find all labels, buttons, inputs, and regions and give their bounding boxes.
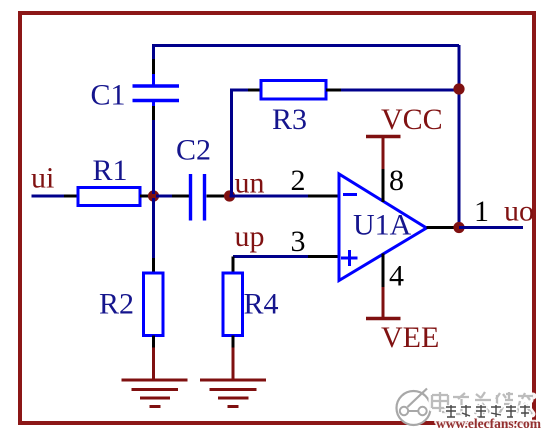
wire node A to C2	[156, 195, 172, 198]
wire R2 to ground	[152, 348, 155, 380]
svg-text:uo: uo	[504, 195, 534, 228]
svg-text:4: 4	[389, 260, 404, 293]
svg-text:8: 8	[389, 164, 404, 197]
pin C2 left	[172, 195, 189, 198]
wire R4 to ground	[232, 348, 235, 380]
svg-text:VEE: VEE	[381, 321, 439, 354]
capacitor C1	[133, 74, 180, 106]
resistor R3	[261, 81, 326, 100]
pin C1 top	[152, 59, 155, 74]
svg-text:up: up	[235, 220, 265, 253]
pin 3 lead	[308, 255, 340, 258]
watermark red url text	[436, 416, 542, 431]
pin R1 right	[140, 195, 150, 198]
node uo junction dot	[453, 222, 464, 233]
watermark logo circle	[397, 389, 431, 426]
pin 4 lead	[382, 254, 385, 288]
svg-text:C1: C1	[91, 79, 126, 112]
svg-text:C2: C2	[176, 134, 211, 167]
pin 1 output lead	[427, 226, 455, 229]
ground below R4	[200, 380, 266, 407]
svg-text:R1: R1	[93, 154, 128, 187]
wire ui input	[32, 195, 65, 198]
svg-text:www.elecfans.com: www.elecfans.com	[436, 416, 542, 431]
wire up to pin 3	[233, 255, 308, 258]
svg-text:R2: R2	[99, 288, 134, 321]
pin R2 bottom	[152, 336, 155, 348]
svg-text:3: 3	[291, 225, 306, 258]
pin R3 right	[326, 89, 341, 92]
pin C1 bottom	[152, 106, 155, 120]
resistor R1	[78, 188, 140, 206]
svg-text:ui: ui	[31, 162, 54, 195]
node B junction dot	[453, 83, 464, 94]
svg-text:U1A: U1A	[353, 209, 412, 242]
resistor R2	[144, 273, 164, 336]
wire un to pin 2	[230, 195, 309, 198]
svg-text:2: 2	[291, 164, 306, 197]
svg-text:1: 1	[474, 195, 489, 228]
wire C1 top to feedback top rail	[154, 46, 460, 60]
op-amp minus sign	[343, 193, 357, 196]
wire node A up to C1	[152, 120, 155, 194]
VCC power bar	[366, 137, 401, 170]
wire node A down to R2	[152, 198, 155, 258]
pin R3 left	[248, 89, 261, 92]
resistor R4	[223, 273, 243, 336]
pin 8 lead	[382, 169, 385, 202]
watermark dark small glyphs	[446, 405, 530, 417]
wire un up to R3	[232, 90, 249, 196]
op-amp plus sign	[341, 250, 358, 266]
pin R4 bottom	[232, 336, 235, 348]
svg-text:R3: R3	[272, 103, 307, 136]
wire up corner down to R4	[232, 257, 235, 274]
node A junction dot	[148, 190, 159, 201]
VEE power bar	[366, 287, 401, 319]
wire feedback right vertical	[458, 45, 461, 228]
wire R3 to feedback node	[341, 89, 459, 92]
op-amp U1A	[339, 174, 427, 281]
pin R4 top lead from corner	[232, 257, 235, 273]
pin C2 right	[207, 195, 225, 198]
pin 2 lead	[308, 195, 340, 198]
watermark gray glyphs	[432, 392, 533, 414]
svg-text:R4: R4	[244, 288, 279, 321]
svg-text:VCC: VCC	[381, 103, 443, 136]
capacitor C2	[191, 174, 205, 221]
ground below R2	[122, 380, 188, 407]
wire output uo	[459, 226, 523, 229]
pin R1 left	[64, 195, 78, 198]
pin R2 top	[152, 258, 155, 273]
node un junction dot	[224, 190, 235, 201]
